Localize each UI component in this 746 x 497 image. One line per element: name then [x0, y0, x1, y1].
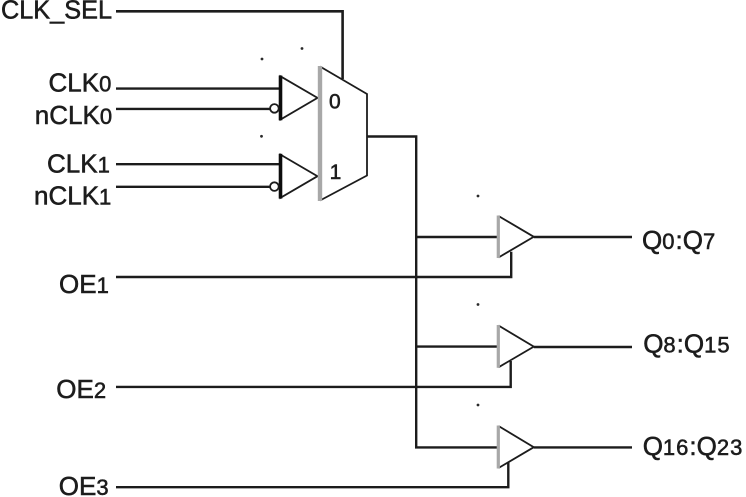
mux U1 body — [320, 66, 367, 201]
input buffer B body — [281, 154, 318, 199]
wire output buffer 2 to Q8:Q15 — [534, 346, 632, 348]
wire OE3 enable — [116, 463, 508, 488]
svg-text:OE3: OE3 — [59, 471, 110, 497]
svg-text:CLK1: CLK1 — [47, 148, 111, 178]
output buffer 2 body — [498, 325, 534, 368]
speck dot 3 — [260, 135, 263, 138]
wire output buffer 1 to Q0:Q7 — [534, 236, 632, 238]
wire OE1 enable — [116, 252, 511, 277]
svg-text:1: 1 — [330, 161, 342, 184]
output buffer 1 body — [498, 216, 534, 259]
svg-text:OE2: OE2 — [56, 374, 107, 404]
svg-text:Q16:Q23: Q16:Q23 — [643, 431, 744, 461]
speck dot 5 — [477, 303, 480, 306]
wire CLK_SEL to mux select — [116, 11, 343, 79]
output buffer 3 body — [498, 426, 534, 469]
svg-text:nCLK0: nCLK0 — [35, 100, 113, 130]
wire mux output trunk — [367, 137, 498, 448]
input buffer B inverting bubble — [270, 182, 279, 191]
wire output buffer 3 to Q16:Q23 — [534, 446, 632, 448]
svg-text:0: 0 — [329, 90, 341, 113]
speck dot 2 — [301, 47, 304, 50]
input buffer A body — [281, 76, 318, 121]
wire CLK1 input — [116, 163, 280, 165]
wire CLK0 input — [116, 87, 280, 89]
wire OE2 enable — [116, 361, 511, 387]
speck dot 1 — [261, 58, 264, 61]
svg-text:Q8:Q15: Q8:Q15 — [643, 328, 730, 358]
svg-text:CLK_SEL: CLK_SEL — [1, 0, 112, 24]
speck dot 4 — [477, 195, 480, 198]
speck dot 6 — [477, 404, 480, 407]
wire nCLK1 input — [116, 186, 270, 188]
wire nCLK0 input — [116, 108, 270, 110]
svg-text:nCLK1: nCLK1 — [34, 180, 112, 210]
input buffer A inverting bubble — [270, 104, 279, 113]
svg-text:Q0:Q7: Q0:Q7 — [642, 225, 716, 255]
svg-text:CLK0: CLK0 — [49, 68, 113, 98]
wire trunk to output buffer 1 — [415, 236, 498, 238]
wire trunk to output buffer 2 — [415, 345, 498, 347]
svg-text:OE1: OE1 — [59, 269, 110, 299]
